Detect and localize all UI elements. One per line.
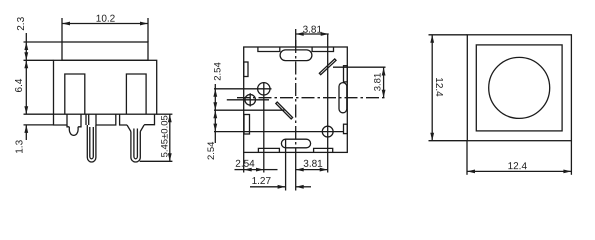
hole A vertical crosshair / extension [263, 82, 265, 173]
left edge slot lower [244, 115, 250, 135]
right slot (stadium) [339, 83, 347, 113]
text 2.3 [16, 16, 27, 30]
dimension 5.45 line [169, 114, 171, 161]
svg-text:2.54: 2.54 [206, 142, 217, 161]
text 2.54 lower-left [206, 142, 217, 161]
bottom extension: slot arc centre [285, 139, 287, 191]
hole C horizontal crosshair / extension [214, 131, 344, 133]
window left [65, 74, 85, 114]
circle [489, 57, 550, 118]
pin 2 [131, 132, 140, 163]
diagonal slot centre-left [276, 102, 293, 119]
window right [126, 74, 146, 114]
svg-text:2.3: 2.3 [16, 16, 27, 30]
bottom slot (stadium) [281, 139, 310, 148]
text 2.54 upper-left [213, 62, 224, 81]
right dim extension upper [333, 66, 386, 68]
left edge notch upper [244, 62, 248, 77]
pin 1 seam lines [90, 127, 94, 159]
text 2.54 bottom [235, 159, 255, 170]
svg-text:1.27: 1.27 [252, 176, 272, 187]
svg-text:12.4: 12.4 [508, 161, 528, 172]
text 12.4 left [433, 77, 444, 97]
text 6.4 [14, 78, 25, 92]
pin 2 seam lines [134, 129, 138, 159]
bottom dim 1.27 left line [250, 186, 286, 188]
top slot (stadium) [280, 50, 312, 61]
hole B vertical crosshair [249, 93, 251, 106]
text 12.4 bottom [508, 161, 528, 172]
dimension 6.4 line [25, 60, 27, 114]
bottom extension: square left edge [243, 152, 245, 172]
svg-text:2.54: 2.54 [235, 159, 255, 170]
extension line left of 10.2 [61, 18, 63, 42]
bottom dim extension right [570, 141, 572, 175]
bullet pin housing [67, 114, 81, 127]
svg-text:2.54: 2.54 [213, 62, 224, 81]
dimension 2.3/6.4 shared arrows [25, 42, 27, 60]
outer square [467, 35, 571, 141]
left dim 2.54 lower span [214, 110, 216, 131]
square outline [244, 47, 348, 152]
svg-text:5.45±0.05: 5.45±0.05 [159, 115, 170, 157]
text 5.45±0.05 [159, 115, 170, 157]
text 1.3 [15, 139, 26, 153]
hole C vertical crosshair / extension [327, 34, 329, 173]
right edge notch lower [344, 124, 348, 133]
horizontal centreline [237, 97, 386, 99]
right dim extension at body bottom [157, 113, 173, 115]
bottom dim 3.81 span [296, 169, 328, 171]
left dim 12.4 line [431, 35, 433, 141]
svg-text:3.81: 3.81 [303, 159, 323, 170]
base middle segment [96, 114, 127, 125]
extension line at body top [24, 59, 54, 61]
dimension 10.2 text [96, 14, 116, 25]
hole B [245, 95, 256, 106]
dimension 1.3 lower arrow [25, 125, 27, 140]
bottom dim extension left [466, 141, 468, 175]
extension line at step bottom [24, 124, 54, 126]
top dim 3.81 line [296, 33, 329, 35]
bottom notch right [314, 148, 333, 152]
hole A [258, 83, 270, 95]
extension line right of 10.2 [147, 18, 149, 42]
top dim extension left [295, 29, 297, 47]
right dim extension at pin tip [140, 160, 173, 162]
bottom notch left [258, 148, 279, 152]
inner square [476, 45, 562, 131]
hole C [322, 126, 333, 137]
bullet pin [69, 127, 78, 136]
left dim line upper 2.54 [214, 84, 216, 89]
barrel rectangle [62, 42, 148, 60]
svg-text:12.4: 12.4 [433, 77, 444, 97]
bottom dim 2.54 line [235, 169, 244, 171]
body rectangle [54, 60, 157, 114]
left dim line tail [214, 132, 216, 143]
svg-text:1.3: 1.3 [15, 139, 26, 153]
left dim column: extension line at barrel top [24, 41, 63, 43]
text 3.81 right [372, 73, 383, 92]
left dim extension bottom [429, 140, 468, 142]
diagonal slot top-right [319, 59, 336, 75]
text 3.81 top [303, 25, 323, 36]
pin 1 [86, 114, 96, 162]
hole B horizontal crosshair [227, 99, 269, 101]
hole A horizontal crosshair / extension [214, 88, 272, 90]
top notch left [258, 47, 280, 52]
svg-text:3.81: 3.81 [303, 25, 323, 36]
left dim extension top [429, 34, 468, 36]
vertical centreline [295, 40, 297, 152]
bottom dim 2.54 span [244, 169, 264, 171]
text 3.81 bottom [303, 159, 323, 170]
right dim 3.81 line [383, 68, 385, 98]
base right step [144, 114, 154, 125]
left dim 2.54 upper span [214, 89, 216, 110]
dimension 2.3 line [25, 33, 27, 42]
right edge notch upper [344, 66, 348, 82]
base left step [54, 114, 68, 125]
text 1.27 bottom [252, 176, 272, 187]
svg-text:6.4: 6.4 [14, 78, 25, 92]
dimension 10.2 line with arrows [62, 23, 148, 25]
extension line to diagonal slot centre [214, 109, 284, 111]
extension line at body bottom [24, 113, 54, 115]
bottom dim 12.4 line [467, 170, 571, 172]
bottom dim 1.27 right line [296, 186, 311, 188]
top notch right [312, 47, 333, 52]
pin 2 flared top [127, 125, 144, 132]
svg-text:3.81: 3.81 [372, 73, 383, 92]
